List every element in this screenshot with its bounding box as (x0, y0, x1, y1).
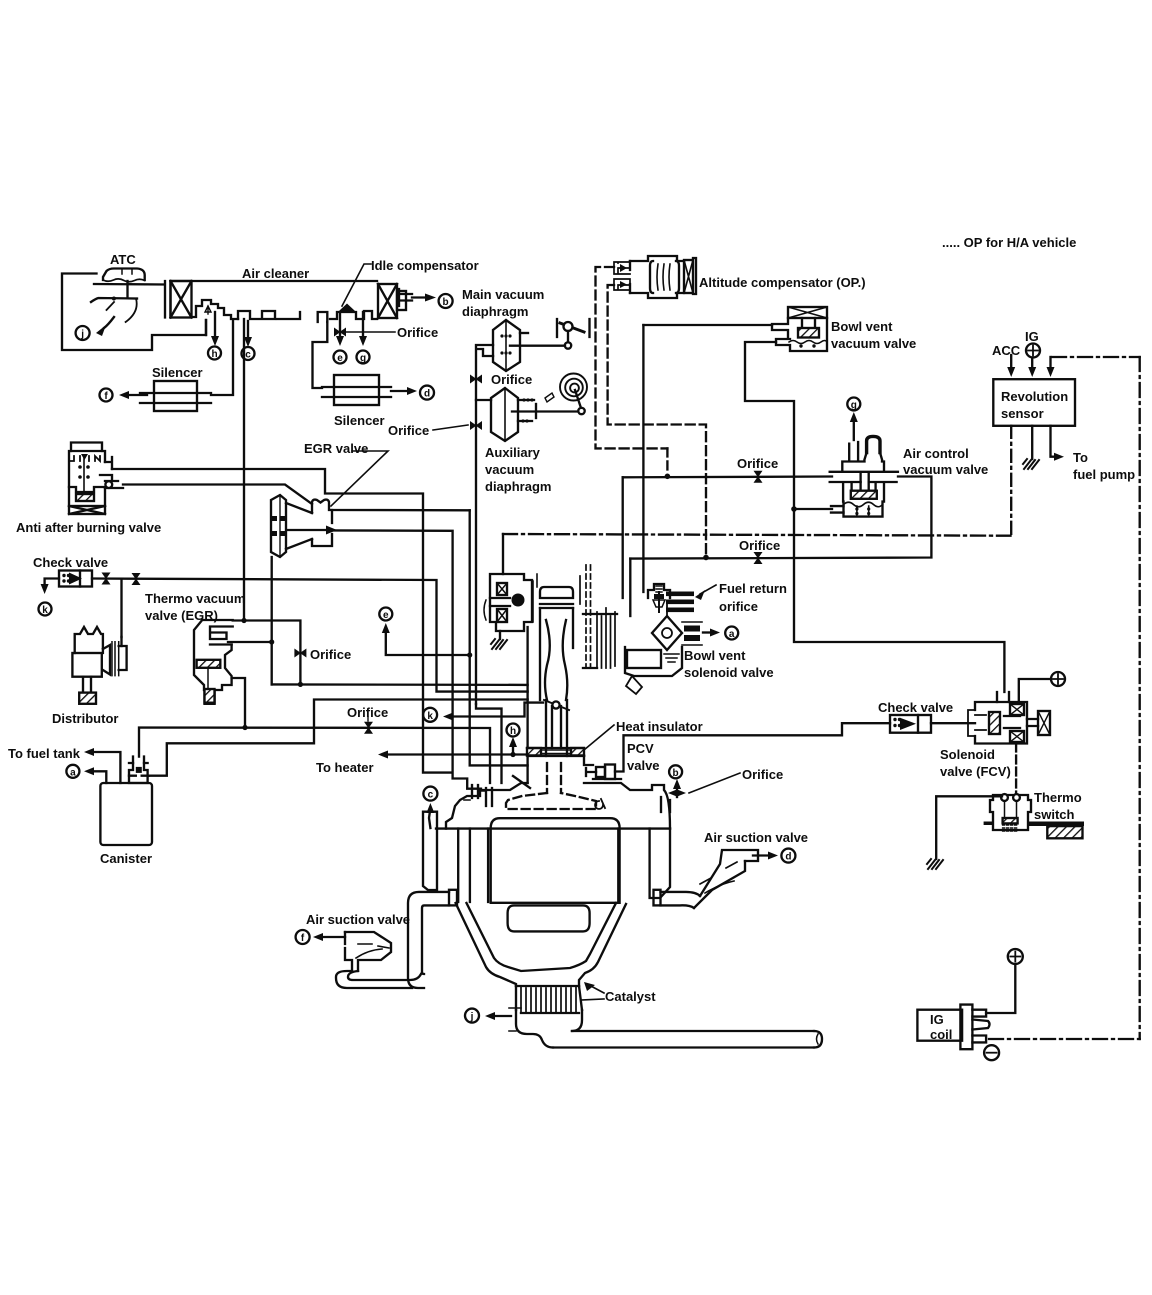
intake flange ticks (464, 785, 492, 806)
svg-text:valve: valve (627, 758, 660, 773)
svg-text:Fuel return: Fuel return (719, 581, 787, 596)
wire check valve to FCV (931, 722, 975, 724)
leader heat insulator (584, 725, 614, 750)
svg-text:vacuum valve: vacuum valve (831, 336, 916, 351)
svg-text:ACC: ACC (992, 343, 1021, 358)
auxiliary vacuum diaphragm (476, 388, 536, 441)
air control vacuum valve (830, 436, 898, 516)
svg-text:EGR valve: EGR valve (304, 441, 368, 456)
bowl vent solenoid poppet (652, 604, 682, 650)
throttle slash (513, 776, 530, 788)
leader orifice idle comp (346, 331, 395, 333)
node c mid (423, 787, 437, 801)
bowl vent vacuum valve (772, 307, 827, 351)
wire arrow to node b (412, 294, 436, 302)
FCV plus terminal (1019, 672, 1065, 702)
thermo switch (984, 794, 1084, 838)
svg-text:Orifice: Orifice (347, 705, 388, 720)
svg-text:Orifice: Orifice (739, 538, 780, 553)
svg-text:diaphragm: diaphragm (462, 304, 528, 319)
node b mid (669, 765, 682, 779)
leader EGR valve (331, 451, 388, 506)
svg-text:coil: coil (930, 1027, 952, 1042)
svg-text:Main vacuum: Main vacuum (462, 287, 544, 302)
air cleaner body (171, 280, 378, 282)
orifice bowtie on canister line (364, 722, 373, 734)
wire spark line to carburetor (272, 683, 528, 686)
revolution sensor (993, 355, 1075, 426)
leader idle compensator (342, 264, 371, 306)
silencer left (140, 381, 211, 411)
wire air control valve lower-left port (794, 508, 832, 510)
wire arrow to node h (211, 312, 219, 346)
intake manifold dashed runner (506, 763, 596, 809)
svg-text:ATC: ATC (110, 252, 136, 267)
svg-text:c: c (428, 790, 434, 801)
svg-text:Anti after burning valve: Anti after burning valve (16, 520, 161, 535)
exhaust tail pipe (553, 1031, 822, 1048)
svg-text:valve (FCV): valve (FCV) (940, 764, 1011, 779)
svg-text:Bowl vent: Bowl vent (831, 319, 893, 334)
svg-text:Auxiliary: Auxiliary (485, 445, 541, 460)
svg-text:Air suction valve: Air suction valve (306, 912, 410, 927)
wire arrow to node h mid (509, 737, 517, 755)
svg-text:Air suction valve: Air suction valve (704, 830, 808, 845)
throttle linkage (510, 319, 590, 349)
svg-text:Orifice: Orifice (397, 325, 438, 340)
orifice on e line (334, 312, 346, 346)
wire EGR valve bottom down (271, 557, 273, 642)
svg-text:Bowl vent: Bowl vent (684, 648, 746, 663)
wire arrow to node d bottom (753, 852, 778, 860)
node g top (357, 351, 370, 365)
svg-text:Air cleaner: Air cleaner (242, 266, 309, 281)
svg-text:Distributor: Distributor (52, 711, 118, 726)
wire canister purge line (139, 728, 490, 784)
node h mid (507, 724, 520, 738)
wire arrow to node j bottom (485, 1012, 511, 1020)
wire anti valve port2 to EGR top (123, 485, 312, 505)
PCV valve and line to check valve (586, 723, 890, 779)
altitude compensator (614, 256, 696, 298)
wire arrow to node a left (84, 767, 106, 783)
wire k line from carb (443, 703, 543, 721)
solenoid valve FCV (968, 692, 1050, 744)
fuel return orifice stack (666, 592, 694, 613)
svg-text:valve (EGR): valve (EGR) (145, 608, 218, 623)
wire TVV port2 to EGR riser (228, 642, 272, 684)
svg-text:a: a (729, 629, 735, 640)
svg-text:Catalyst: Catalyst (605, 989, 656, 1004)
wire check valve line to carburetor (92, 579, 528, 692)
wire notch down left to silencer2 (313, 322, 328, 388)
node f bottom (296, 930, 310, 944)
svg-text:Idle compensator: Idle compensator (371, 258, 479, 273)
wire silencer to air cleaner (211, 320, 233, 395)
wire dashdot main line (503, 534, 1011, 536)
svg-text:d: d (785, 852, 791, 863)
wire to heater (378, 751, 528, 759)
svg-text:IG: IG (1025, 329, 1039, 344)
svg-text:h: h (510, 726, 516, 737)
thermo vacuum valve (EGR) (194, 620, 233, 704)
wire bowl vent valve to FCV (745, 342, 1004, 692)
wire e branch (382, 623, 469, 655)
intake manifold body (446, 756, 670, 829)
svg-text:c: c (245, 350, 251, 361)
EGR valve (271, 495, 337, 557)
canister purge valve (129, 757, 149, 783)
wire anti valve port1 to EGR area (112, 469, 452, 773)
wire aux orifice column jog into manifold (476, 704, 502, 783)
wire EGR poppet line down to carb base (470, 510, 528, 765)
svg-text:e: e (383, 610, 389, 621)
svg-text:Check valve: Check valve (878, 700, 953, 715)
choke spiral (512, 374, 587, 415)
svg-text:j: j (470, 1012, 474, 1023)
wire to fuel tank arrow (84, 748, 120, 783)
svg-text:solenoid valve: solenoid valve (684, 665, 774, 680)
svg-text:Orifice: Orifice (491, 372, 532, 387)
carburetor float bowl wall (580, 565, 617, 668)
svg-text:b: b (673, 768, 679, 779)
wire canister vent to carburetor bowl (149, 700, 528, 776)
node j (76, 326, 90, 340)
right air gallery pipe (661, 892, 701, 908)
node g right (847, 398, 860, 412)
arrow to node j (96, 317, 114, 336)
ATC assembly (91, 269, 165, 323)
svg-text:Solenoid: Solenoid (940, 747, 995, 762)
wire arrow to node a right (703, 629, 720, 637)
main vacuum diaphragm (493, 320, 528, 371)
svg-text:g: g (360, 353, 366, 364)
svg-text:..... OP for H/A vehicle: ..... OP for H/A vehicle (942, 235, 1076, 250)
node k left (39, 603, 52, 617)
svg-text:Air control: Air control (903, 446, 969, 461)
idle compensator ports on air cleaner (277, 304, 377, 323)
svg-text:sensor: sensor (1001, 406, 1044, 421)
svg-text:Revolution: Revolution (1001, 389, 1068, 404)
wire EGR arrow line down (332, 530, 481, 788)
svg-text:h: h (211, 349, 217, 360)
node f (100, 389, 113, 403)
wire check valve to node k (41, 579, 59, 595)
orifice bowtie on x=300 (294, 649, 306, 658)
svg-text:vacuum: vacuum (485, 462, 534, 477)
svg-text:Orifice: Orifice (388, 423, 429, 438)
node e mid (379, 608, 392, 622)
svg-text:To heater: To heater (316, 760, 374, 775)
wire air control valve left port line (623, 475, 832, 478)
node e (334, 351, 347, 365)
orifice on air control line (754, 471, 763, 483)
air suction valve right (694, 850, 758, 908)
check valve right (890, 715, 931, 733)
svg-text:switch: switch (1034, 807, 1075, 822)
node j bottom (465, 1009, 479, 1023)
air cleaner h take-off fitting (192, 300, 238, 335)
wire main diaphragm ports to vertical (476, 345, 493, 704)
node a left (66, 765, 79, 779)
wire to distributor (120, 579, 122, 637)
air cleaner bottom notches (238, 311, 275, 319)
svg-text:IG: IG (930, 1012, 944, 1027)
orifice bowtie 1 on check line (102, 573, 111, 585)
catalyst (516, 986, 582, 1013)
orifice bowtie 2 on check line (132, 573, 141, 585)
leader orifice aux (433, 425, 468, 430)
wire ATC enclosure (62, 274, 206, 351)
anti after burning valve (69, 443, 123, 515)
svg-text:vacuum valve: vacuum valve (903, 462, 988, 477)
svg-text:Orifice: Orifice (737, 456, 778, 471)
left air gallery pipe (408, 892, 449, 988)
distributor (72, 627, 126, 704)
carburetor body outline (528, 574, 573, 783)
node d (420, 386, 434, 400)
orifice lower on x=476 (470, 421, 482, 430)
air cleaner right crosshatch box (378, 284, 412, 318)
svg-text:k: k (427, 711, 433, 722)
ground below air horn (491, 631, 507, 649)
orifice on loop line (754, 552, 763, 564)
wire air control valve right loop (630, 477, 931, 559)
leader orifice canister line (367, 717, 369, 721)
wire air cleaner down to thermo vacuum valve (243, 319, 245, 620)
carburetor base and heat insulator (527, 748, 584, 756)
orifice mid on x=476 (470, 375, 482, 384)
node h (208, 347, 221, 361)
node k mid (423, 708, 437, 722)
check valve left (59, 571, 92, 587)
wire IG coil plus (986, 949, 1023, 1013)
air horn unit left of carb (484, 574, 532, 631)
svg-text:Canister: Canister (100, 851, 152, 866)
svg-text:Check valve: Check valve (33, 555, 108, 570)
air suction valve left (336, 932, 421, 988)
svg-text:Thermo vacuum: Thermo vacuum (145, 591, 245, 606)
wire EGR poppet port (332, 509, 470, 512)
wire thermo switch to ground (927, 796, 1002, 869)
svg-text:Silencer: Silencer (334, 413, 385, 428)
node d bottom (781, 849, 795, 863)
air cleaner left crosshatch box (165, 281, 192, 318)
engine exhaust funnel (449, 890, 661, 986)
dash-dot IG coil to right bus (989, 1038, 1140, 1040)
wire carb to bowl vent vacuum valve (643, 324, 772, 326)
dashed wire from altitude compensator into bowl (666, 448, 668, 473)
wire TVV top port to orifice drop (233, 621, 301, 685)
svg-text:Thermo: Thermo (1034, 790, 1082, 805)
IG coil minus terminal (984, 1045, 999, 1060)
svg-text:To: To (1073, 450, 1088, 465)
svg-text:e: e (337, 353, 343, 364)
svg-text:PCV: PCV (627, 741, 654, 756)
sensor to fuel pump arrow (1051, 426, 1065, 461)
wire dashdot drop to air horn (502, 534, 504, 574)
dashed wires from altitude compensator (596, 267, 707, 554)
orifice b with arrows (661, 779, 686, 812)
svg-text:Heat insulator: Heat insulator (616, 719, 703, 734)
IG plus terminal (1026, 344, 1040, 358)
engine head top (423, 812, 670, 902)
wire air control line left end into bowl tube (622, 477, 624, 598)
canister (100, 783, 152, 845)
svg-text:Orifice: Orifice (742, 767, 783, 782)
wire arrow to node g (359, 312, 367, 346)
svg-text:b: b (443, 297, 449, 308)
svg-text:Silencer: Silencer (152, 365, 203, 380)
silencer 2 (322, 375, 391, 405)
wire arrow to node c (244, 321, 252, 347)
node c (242, 347, 255, 361)
svg-text:To fuel tank: To fuel tank (8, 746, 81, 761)
fuel return needle and seat (648, 584, 670, 612)
node b (439, 294, 453, 308)
wire arrow to node d (391, 387, 417, 395)
wire FCV to thermo switch (1015, 744, 1017, 796)
wire arrow to node c mid (426, 803, 434, 828)
node a right (725, 627, 738, 641)
svg-text:k: k (42, 605, 48, 616)
wire TVV lower port to canister line (232, 678, 245, 728)
bowl vent solenoid body (625, 647, 682, 694)
engine valve cover (491, 818, 620, 903)
wire arrow to node g right (850, 412, 858, 440)
wire arrow to node f bottom (313, 933, 345, 941)
svg-text:Orifice: Orifice (310, 647, 351, 662)
svg-text:g: g (851, 400, 857, 411)
right dash-dot bus (1139, 357, 1141, 1039)
sensor dash-dot down to main dashdot (1010, 426, 1012, 536)
svg-text:Altitude compensator (OP.): Altitude compensator (OP.) (699, 275, 866, 290)
wire orifice line into bowl tube (629, 559, 631, 616)
svg-text:fuel pump: fuel pump (1073, 467, 1135, 482)
catalyst outlet (509, 1008, 582, 1048)
leader catalyst (581, 982, 604, 1000)
sigma mark (595, 799, 605, 809)
svg-text:j: j (80, 329, 84, 340)
svg-text:orifice: orifice (719, 599, 758, 614)
leader fuel return orifice (695, 585, 716, 600)
wire bowl vent vacuum line drop (642, 325, 644, 592)
wire arrow to node f (119, 391, 147, 399)
sensor ground (1023, 426, 1039, 469)
svg-text:d: d (424, 389, 430, 400)
leader orifice b (689, 773, 740, 793)
dash-dot from sensor to right bus (1052, 356, 1140, 358)
IG coil (917, 1005, 989, 1050)
port blocks to node a (682, 622, 702, 645)
svg-text:diaphragm: diaphragm (485, 479, 551, 494)
svg-text:a: a (70, 767, 76, 778)
